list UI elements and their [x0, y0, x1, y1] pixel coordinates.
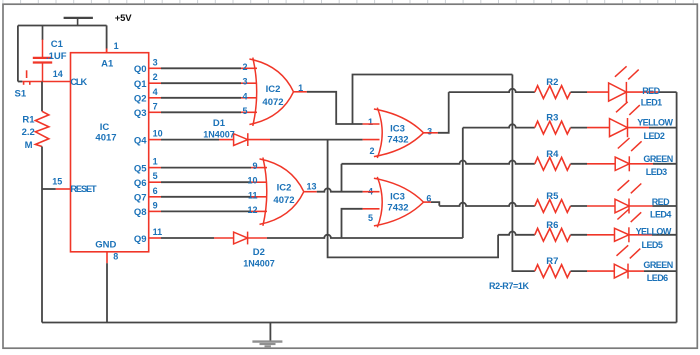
- capacitor C1: [33, 26, 52, 82]
- resistor R1: [35, 111, 48, 146]
- svg-text:5: 5: [368, 213, 373, 223]
- wire IC3b pin4 stub: [363, 191, 380, 193]
- svg-text:1: 1: [153, 157, 158, 167]
- wire Q8 to gate IC2b input: [149, 210, 161, 212]
- wire LED LED4 cathode: [629, 205, 653, 207]
- or-gate IC2a 4072: [249, 58, 293, 126]
- wire IC3b pin5 stub: [363, 208, 380, 210]
- ground: [252, 323, 282, 347]
- wire yellow1 net riser to R6: [328, 140, 499, 258]
- svg-text:11: 11: [248, 190, 258, 200]
- LED LED4 (RED): [615, 180, 641, 213]
- svg-text:1N4007: 1N4007: [243, 259, 275, 269]
- LED LED1 (RED): [609, 66, 639, 102]
- svg-text:1: 1: [114, 41, 119, 51]
- svg-text:D2: D2: [253, 247, 265, 258]
- wire S1 lead: [18, 81, 22, 83]
- wire R2 row: [449, 89, 535, 92]
- wire Q5 to gate IC2b input: [149, 167, 161, 169]
- wire Q9 to D2: [149, 237, 161, 239]
- svg-text:R5: R5: [546, 191, 559, 202]
- LED LED6 (GREEN): [614, 245, 640, 278]
- switch S1: [22, 70, 42, 85]
- svg-text:GND: GND: [95, 239, 116, 250]
- svg-text:LED5: LED5: [642, 240, 663, 250]
- svg-text:IC3: IC3: [390, 192, 405, 203]
- svg-text:4: 4: [242, 91, 247, 101]
- svg-text:R6: R6: [546, 220, 558, 231]
- svg-text:10: 10: [153, 129, 163, 139]
- svg-text:4: 4: [153, 87, 158, 97]
- wire R3 row: [463, 124, 535, 127]
- resistor R3: [535, 121, 571, 134]
- svg-text:15: 15: [52, 177, 62, 187]
- svg-text:Q5: Q5: [134, 163, 147, 174]
- wire gate2 out to IC3b pin4: [317, 188, 363, 191]
- wire yellow2 riser to R3: [462, 128, 464, 238]
- svg-text:GREEN: GREEN: [643, 154, 672, 164]
- wire red1 riser: [438, 92, 449, 133]
- svg-text:LED2: LED2: [644, 131, 665, 141]
- wire green2 riser: [341, 164, 343, 192]
- wire R1 bottom to ground rail: [41, 147, 43, 323]
- svg-text:6: 6: [153, 186, 158, 196]
- svg-text:14: 14: [53, 69, 63, 79]
- svg-text:IC2: IC2: [266, 84, 281, 95]
- wire IC GND pin 8 to rail: [106, 252, 108, 263]
- wire R6 to LED: [571, 234, 588, 236]
- LED LED5 (YELLOW): [615, 209, 642, 242]
- wire gate4 out jog: [431, 202, 439, 206]
- svg-text:R7: R7: [546, 256, 558, 267]
- svg-text:RESET: RESET: [70, 184, 97, 194]
- wire IC2a output to IC3a pin1: [294, 91, 307, 93]
- resistor R6: [535, 228, 571, 241]
- svg-text:A1: A1: [101, 59, 114, 70]
- svg-text:12: 12: [247, 205, 257, 215]
- wire Q0 to gate IC2a input: [149, 67, 161, 69]
- wire Q6 to gate IC2b input: [149, 181, 161, 183]
- svg-text:2: 2: [153, 72, 158, 82]
- wire LED LED2 cathode: [628, 127, 650, 129]
- svg-text:Q8: Q8: [134, 207, 147, 218]
- svg-text:YELLOW: YELLOW: [637, 117, 673, 127]
- svg-text:RED: RED: [642, 86, 660, 96]
- svg-text:10: 10: [247, 176, 257, 186]
- wire green1 net top run: [353, 75, 513, 125]
- svg-text:LED3: LED3: [646, 167, 667, 177]
- wire LED LED6 cathode: [628, 270, 644, 272]
- svg-text:R2: R2: [546, 77, 558, 88]
- svg-text:D1: D1: [213, 118, 226, 129]
- svg-text:R3: R3: [546, 113, 558, 124]
- wire R5 to LED: [571, 205, 588, 207]
- svg-text:LED6: LED6: [647, 273, 668, 283]
- LED LED2 (YELLOW): [610, 102, 640, 137]
- wire Q3 to gate IC2a input: [149, 111, 161, 113]
- svg-text:LED4: LED4: [650, 210, 671, 220]
- svg-text:IC: IC: [100, 122, 110, 133]
- svg-text:Q0: Q0: [134, 64, 147, 75]
- wire R6 row: [498, 232, 535, 235]
- svg-text:8: 8: [113, 251, 118, 261]
- svg-text:Q3: Q3: [134, 108, 147, 119]
- svg-text:Q9: Q9: [134, 234, 147, 245]
- svg-text:R2-R7=1K: R2-R7=1K: [489, 281, 529, 291]
- wire R5 row: [439, 203, 535, 206]
- svg-text:3: 3: [242, 77, 247, 87]
- wire Q4 to D1: [149, 139, 161, 141]
- wire R4 to LED: [571, 163, 588, 165]
- svg-text:Q6: Q6: [134, 178, 147, 189]
- svg-text:11: 11: [153, 227, 163, 237]
- wire Q7 to gate IC2b input: [149, 196, 161, 198]
- or-gate IC2b 4072: [260, 158, 304, 226]
- +5V supply symbol: [64, 18, 93, 26]
- or-gate IC3b 7432: [374, 177, 424, 227]
- wire D1 cathode: [248, 139, 270, 141]
- svg-text:R4: R4: [546, 149, 559, 160]
- wire gate1 out elbow: [307, 92, 363, 124]
- wire IC3b output: [424, 201, 432, 203]
- wire D2 cathode: [248, 237, 267, 239]
- svg-text:.1UF: .1UF: [46, 51, 67, 62]
- wire IC3a pin1 stub: [363, 123, 380, 125]
- IC A1 4017 body: [71, 53, 149, 252]
- wire left branch to S1: [17, 26, 19, 82]
- svg-text:1: 1: [368, 117, 373, 127]
- svg-text:IC2: IC2: [277, 182, 292, 193]
- wire +5V rail: [18, 25, 107, 27]
- wire D2 cathode to R3 riser: [267, 235, 463, 238]
- wire IC3a output: [424, 132, 438, 134]
- resistor R4: [535, 157, 571, 170]
- wire CLK junction down to R1: [41, 82, 43, 112]
- svg-text:5: 5: [242, 106, 247, 116]
- resistor R2: [535, 86, 571, 99]
- svg-text:9: 9: [252, 161, 257, 171]
- svg-text:3: 3: [427, 127, 432, 137]
- svg-text:3: 3: [153, 57, 158, 67]
- wire RESET tap: [42, 188, 56, 190]
- svg-text:R1: R1: [22, 114, 35, 125]
- svg-text:Q7: Q7: [134, 193, 147, 204]
- LED LED3 (GREEN): [615, 138, 641, 171]
- svg-text:Q2: Q2: [134, 94, 147, 105]
- wire LED cathode bus: [676, 92, 678, 322]
- label IC 4017: [95, 122, 116, 144]
- svg-text:2: 2: [369, 146, 374, 156]
- diode D1 1N4007: [234, 133, 248, 146]
- wire R3 to LED: [571, 127, 588, 129]
- svg-text:GREEN: GREEN: [643, 260, 672, 270]
- wire ground rail: [42, 322, 677, 324]
- svg-text:4017: 4017: [95, 133, 116, 144]
- svg-text:4072: 4072: [273, 195, 294, 206]
- svg-text:9: 9: [153, 200, 158, 210]
- svg-text:7432: 7432: [387, 202, 408, 213]
- svg-text:7: 7: [153, 101, 158, 111]
- svg-text:Q4: Q4: [134, 135, 147, 146]
- wire green1 net riser to R7: [512, 75, 534, 272]
- diode D2 1N4007: [234, 232, 248, 245]
- svg-text:IC3: IC3: [390, 124, 405, 135]
- wire Q1 to gate IC2a input: [149, 82, 161, 84]
- svg-text:C1: C1: [51, 39, 64, 50]
- wire CLK (junction to IC pin 14): [43, 81, 71, 83]
- wire IC2b output: [304, 191, 317, 193]
- svg-text:+5V: +5V: [115, 13, 132, 24]
- svg-text:7432: 7432: [387, 134, 408, 145]
- wire R7 to LED: [571, 270, 588, 272]
- svg-text:YELLOW: YELLOW: [636, 227, 672, 237]
- svg-text:Q1: Q1: [134, 79, 147, 90]
- wire R4 row: [342, 161, 535, 164]
- wire LED LED1 cathode: [626, 91, 659, 93]
- wire IC pin1 supply drop: [106, 25, 108, 48]
- svg-text:M: M: [25, 140, 33, 151]
- wire Q2 to gate IC2a input: [149, 97, 161, 99]
- resistor R7: [535, 265, 571, 278]
- resistor R5: [535, 200, 571, 213]
- wire LED LED5 cathode: [629, 234, 652, 236]
- svg-text:1N4007: 1N4007: [203, 129, 235, 139]
- or-gate IC3a 7432: [374, 108, 424, 158]
- svg-text:S1: S1: [15, 88, 27, 99]
- svg-text:LED1: LED1: [641, 98, 662, 108]
- svg-text:2.2: 2.2: [22, 127, 35, 138]
- wire R2 to LED: [571, 91, 588, 93]
- svg-text:4072: 4072: [262, 97, 283, 108]
- svg-text:2: 2: [242, 62, 247, 72]
- wire LED LED3 cathode: [629, 163, 653, 165]
- svg-text:13: 13: [306, 182, 316, 192]
- wire IC3b pin5 branch: [342, 209, 363, 238]
- svg-text:5: 5: [153, 171, 158, 181]
- svg-text:CLK: CLK: [70, 77, 87, 87]
- svg-text:RED: RED: [652, 197, 670, 207]
